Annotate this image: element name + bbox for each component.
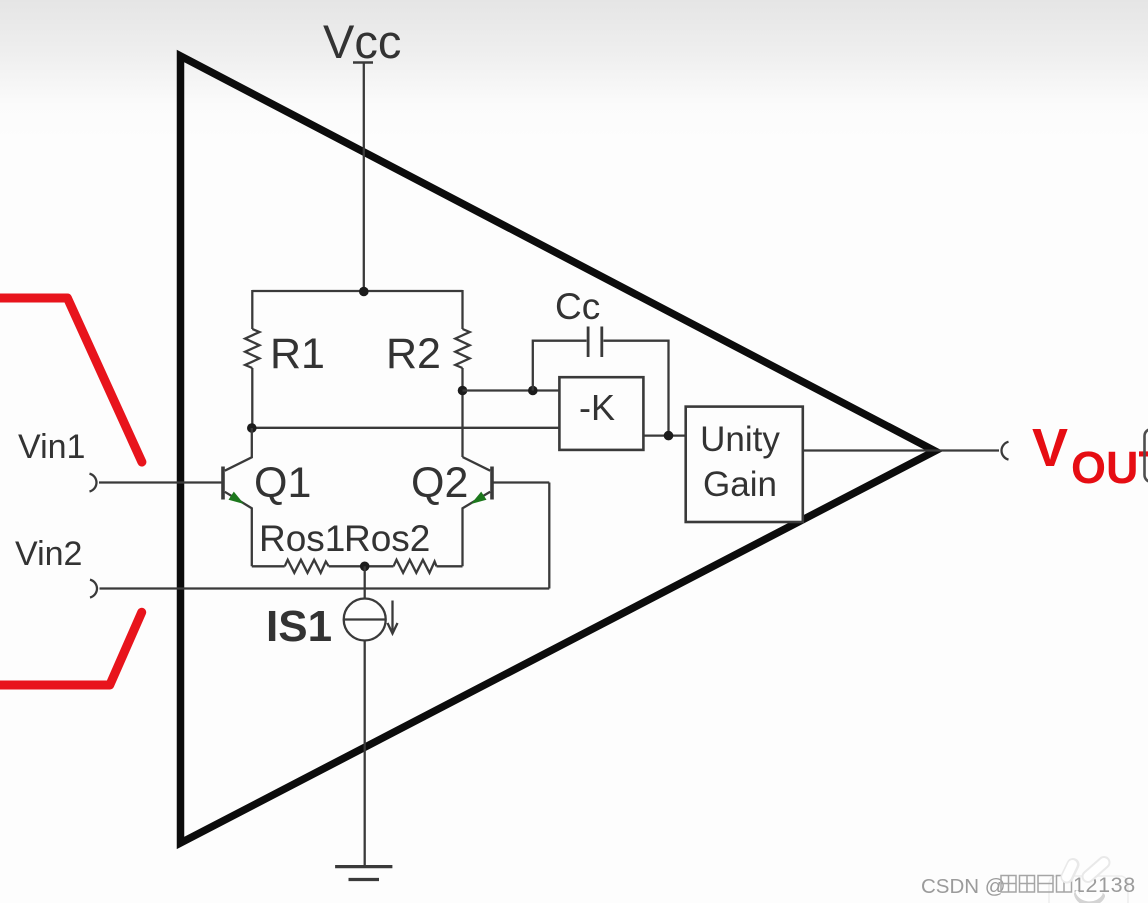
svg-text:Vin1: Vin1 <box>18 428 85 466</box>
watermark logo C arc <box>1077 894 1102 903</box>
ground <box>335 865 392 868</box>
node Vcc/top-rail junction <box>359 287 369 297</box>
node tail junction <box>360 562 370 572</box>
svg-text:Unity: Unity <box>700 420 780 459</box>
op-amp U1 triangle body <box>181 56 936 843</box>
wire Vcc vertical <box>363 63 365 292</box>
watermark logo ears <box>1067 863 1105 903</box>
svg-text:Vcc: Vcc <box>323 15 401 68</box>
capacitor Cc <box>587 327 590 358</box>
node R1 bottom junction <box>247 423 257 433</box>
resistor R2 <box>455 329 469 368</box>
svg-text:Q2: Q2 <box>411 459 468 507</box>
wire Vin1 to Q1 base <box>99 481 223 483</box>
svg-text:Cc: Cc <box>555 286 600 327</box>
wire long rail R1 node to -K lower input <box>251 427 559 429</box>
watermark plate <box>1049 876 1128 903</box>
pin Vin2 terminal <box>90 580 97 598</box>
pin output terminal <box>1002 442 1009 460</box>
resistor R1 <box>245 329 259 368</box>
wire R1 branch upper <box>251 290 253 329</box>
svg-text:Q1: Q1 <box>254 459 311 507</box>
resistor Ros1 <box>285 560 329 573</box>
current source IS1 <box>344 599 386 641</box>
pin Vin1 terminal <box>90 474 97 492</box>
svg-text:Ros2: Ros2 <box>344 518 430 559</box>
cut-off rounded element at right edge <box>1145 429 1148 482</box>
wire Q2 base drop <box>492 481 549 483</box>
wire Cc loop right <box>603 341 668 436</box>
transistor Q1 <box>223 428 252 566</box>
wire R2 branch upper <box>461 290 463 329</box>
wire output <box>803 449 999 451</box>
svg-text:Vin2: Vin2 <box>15 535 82 573</box>
svg-text:-K: -K <box>579 387 615 428</box>
wire Ros rail with resistors <box>252 565 285 567</box>
svg-text:IS1: IS1 <box>266 602 332 651</box>
resistor Ros2 <box>394 560 437 573</box>
wire tail to IS1 <box>364 566 366 598</box>
wire red input bracket bottom <box>0 612 142 685</box>
block -K <box>559 377 643 450</box>
wire IS1 to ground <box>364 641 366 867</box>
Vcc power terminal tick <box>353 61 373 64</box>
svg-text:R2: R2 <box>386 330 441 378</box>
svg-text:R1: R1 <box>270 330 325 378</box>
wire R1 branch lower <box>251 368 253 428</box>
wire R2 branch lower <box>461 368 463 457</box>
wire Cc loop left <box>533 341 587 391</box>
svg-text:Ros1: Ros1 <box>259 518 345 559</box>
wire -K output <box>643 434 685 436</box>
node Cc tap <box>528 386 538 396</box>
node -K output / Cc junction <box>664 431 674 441</box>
svg-text:V: V <box>1032 418 1068 478</box>
wire R2 node to -K upper input <box>463 389 560 391</box>
block Unity Gain <box>686 407 803 522</box>
svg-text:Gain: Gain <box>703 465 777 504</box>
svg-text:CSDN @: CSDN @ <box>921 875 1006 898</box>
IS1 direction arrow <box>391 601 393 631</box>
node R2 bottom junction <box>458 386 468 396</box>
transistor Q2 <box>463 457 493 566</box>
svg-text:OUT: OUT <box>1071 442 1148 493</box>
wire top rail <box>252 290 462 292</box>
wire red input bracket top <box>0 298 142 462</box>
wire Vin2 long <box>100 587 550 589</box>
